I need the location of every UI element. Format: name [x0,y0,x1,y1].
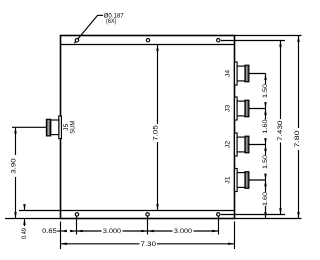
svg-text:3.90: 3.90 [11,157,17,173]
svg-text:(6X): (6X) [106,19,116,25]
svg-text:J1: J1 [226,175,232,183]
svg-text:J5: J5 [64,123,70,131]
svg-text:7.430: 7.430 [278,120,284,141]
svg-text:J2: J2 [226,140,232,148]
svg-text:7.05: 7.05 [154,124,160,140]
svg-text:J3: J3 [226,104,232,112]
svg-text:3.000: 3.000 [174,229,193,235]
svg-text:0.65: 0.65 [42,229,57,235]
svg-text:SUM: SUM [70,121,76,134]
svg-text:J4: J4 [226,69,232,77]
svg-text:1.60: 1.60 [263,191,269,206]
svg-text:7.80: 7.80 [295,130,301,148]
svg-text:7.30: 7.30 [141,242,157,248]
svg-text:1.50: 1.50 [263,154,269,169]
svg-text:1.50: 1.50 [263,83,269,98]
svg-text:0.49: 0.49 [22,227,28,239]
svg-text:1.60: 1.60 [263,119,269,134]
svg-text:3.000: 3.000 [103,229,122,235]
